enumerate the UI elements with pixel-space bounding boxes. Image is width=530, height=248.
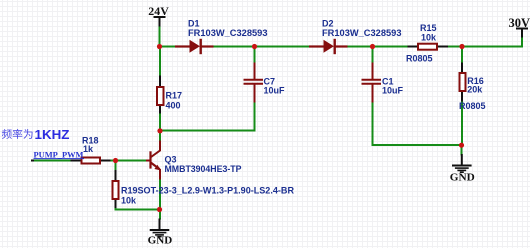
svg-text:R17: R17	[166, 91, 183, 101]
svg-text:10uF: 10uF	[264, 86, 286, 96]
svg-text:10k: 10k	[421, 33, 437, 43]
svg-text:10k: 10k	[121, 196, 137, 206]
svg-text:GND: GND	[450, 173, 475, 184]
svg-text:30V: 30V	[509, 16, 530, 30]
svg-text:FR103W_C328593: FR103W_C328593	[188, 28, 268, 38]
svg-text:400: 400	[166, 101, 181, 111]
svg-text:1KHZ: 1KHZ	[35, 127, 70, 142]
svg-text:D2: D2	[322, 18, 334, 28]
svg-text:Q3: Q3	[165, 155, 177, 165]
svg-text:10uF: 10uF	[382, 86, 404, 96]
svg-text:20k: 20k	[467, 85, 483, 95]
svg-text:MMBT3904HE3-TP: MMBT3904HE3-TP	[165, 164, 242, 174]
svg-text:GND: GND	[148, 235, 173, 246]
svg-text:FR103W_C328593: FR103W_C328593	[322, 28, 402, 38]
svg-text:24V: 24V	[148, 4, 169, 18]
svg-text:1k: 1k	[83, 144, 94, 154]
svg-text:R0805: R0805	[406, 54, 433, 64]
svg-text:D1: D1	[188, 18, 200, 28]
svg-text:PUMP_PWM: PUMP_PWM	[34, 149, 84, 159]
svg-text:R15: R15	[420, 23, 437, 33]
svg-text:R19: R19	[121, 186, 138, 196]
svg-text:SOT-23-3_L2.9-W1.3-P1.90-LS2.4: SOT-23-3_L2.9-W1.3-P1.90-LS2.4-BR	[138, 186, 295, 196]
svg-text:R0805: R0805	[459, 101, 486, 111]
